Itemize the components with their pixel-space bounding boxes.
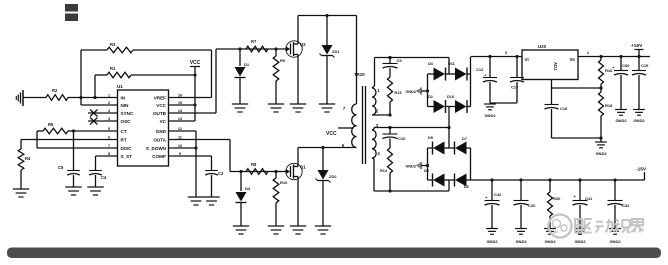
svg-text:R2: R2 [52,88,58,93]
capacitor C17 [510,57,524,104]
svg-text:OSC: OSC [121,119,132,124]
svg-text:D2: D2 [428,95,433,99]
wire pin1 rail to bridge [375,58,450,75]
svg-text:C19: C19 [641,63,649,68]
ground (below C3) [203,197,219,205]
svg-text:+15V: +15V [631,43,643,49]
svg-text:S_DOWN: S_DOWN [146,146,167,151]
svg-text:IN: IN [121,95,126,100]
svg-text:NIN: NIN [121,103,130,108]
svg-text:VC: VC [160,119,167,124]
ground GND2 (below R18) [595,138,607,156]
svg-text:GND2: GND2 [515,239,527,244]
op-amp U20 regulator [522,44,578,80]
svg-text:GND2: GND2 [544,239,556,244]
wire bridge left column [426,74,429,107]
svg-text:D10: D10 [447,95,454,99]
svg-text:C41: C41 [585,196,593,201]
svg-text:R13: R13 [395,91,402,95]
ground (below Q1 source) [290,226,306,234]
svg-text:GND2: GND2 [615,118,627,123]
wire bottom return line [374,189,449,192]
svg-text:Vo: Vo [569,57,575,62]
ground (below Q2 source) [290,104,306,112]
svg-text:C3: C3 [218,171,224,176]
wire bottom bridge left column [426,148,429,180]
capacitor C60 [612,57,630,110]
diode D6 [445,174,471,190]
wire RT pin6 [21,139,118,141]
transformer secondary winding upper [372,58,392,117]
svg-text:C12: C12 [476,67,484,72]
svg-text:15: 15 [178,101,182,105]
capacitor C4 [89,171,107,188]
svg-text:GND2: GND2 [405,165,416,169]
wire center tap line [374,126,451,129]
wire ADJ line [552,80,602,89]
svg-text:R1: R1 [110,66,116,71]
svg-text:R9: R9 [280,58,286,63]
svg-text:GND2: GND2 [633,118,645,123]
wire bridge right column [470,57,472,107]
svg-text:GND2: GND2 [484,113,496,118]
resistor R18 [599,88,614,140]
node GND2 (lower bridge left) [405,162,427,169]
transistor Q2 MOSFET [286,16,306,105]
wire pin5 line (Q1 drain to transformer pin5) [298,146,357,149]
svg-text:C4: C4 [101,175,107,180]
svg-text:C32: C32 [622,203,630,208]
header list marks [65,4,78,21]
capacitor C18 [545,88,569,138]
svg-text:D11: D11 [448,62,455,66]
svg-text:D1: D1 [244,62,250,67]
resistor R2 [46,88,68,100]
svg-text:VREF: VREF [154,95,166,100]
power VCC symbol (near U1) [190,60,201,121]
svg-text:GND2: GND2 [574,239,586,244]
ground (below ZD1) [319,104,335,112]
svg-text:GND: GND [156,129,167,134]
diode D2 [428,95,446,113]
ground GND2 (below C42) [486,229,498,245]
wire regulator bottom line [552,137,602,139]
wire OSC pin4 stub with X (no connect) [88,118,118,125]
capacitor C32 [608,180,631,228]
svg-text:1: 1 [108,94,110,98]
svg-text:R18: R18 [605,103,613,108]
wire negative output rail [471,172,645,182]
capacitor C19 [632,57,649,110]
svg-text:C42: C42 [494,192,502,197]
diode D4 (bridge) [424,169,445,187]
ground (chassis, left of R2) [16,90,46,106]
capacitor C5 [58,131,80,187]
power -15V terminal [636,167,647,173]
svg-text:C5: C5 [58,165,64,170]
svg-text:-15V: -15V [636,167,647,173]
ground GND2 (below C19) [633,110,645,124]
ground GND2 (below C20) [515,229,527,245]
svg-text:OUTB: OUTB [153,111,167,116]
power VCC tap (transformer primary center) [326,128,354,137]
wire bottom bridge row2 mid riser [448,180,450,191]
transformer core [363,86,366,164]
svg-text:Q2: Q2 [300,42,306,47]
ground GND2 (below C32) [609,229,621,245]
svg-text:C17: C17 [511,85,519,90]
capacitor C41 [573,180,594,228]
ground (below C4) [87,187,103,195]
svg-text:R3: R3 [110,42,116,47]
diode D10 [446,95,471,113]
svg-text:C9: C9 [397,58,403,63]
svg-text:13: 13 [178,117,182,121]
capacitor C10 and resistor R14 snubber [380,126,406,191]
svg-text:R7: R7 [251,39,257,44]
ground (below C5) [65,187,81,195]
wire cap bottoms join [490,102,517,104]
diode D4 [236,172,251,227]
wire S_ST pin8 [96,156,118,170]
capacitor C9 and resistor R13 snubber [383,56,403,115]
wire IN pin1 net [68,96,118,99]
svg-text:16: 16 [178,94,182,98]
wire NIN pin2 [81,104,118,106]
svg-text:C18: C18 [560,106,568,111]
wire VCC pin15 [169,103,197,106]
svg-text:VCC: VCC [156,103,166,108]
svg-text:ZD2: ZD2 [329,174,337,179]
resistor R9 [273,49,286,104]
svg-text:C10: C10 [398,136,406,141]
diode D1 [235,49,250,104]
op-amp U1 PWM controller [108,84,183,166]
ground GND2 (below C41) [574,229,586,245]
svg-text:D4: D4 [245,186,251,191]
transformer secondary winding lower [372,123,380,191]
diode D5 [428,136,445,155]
wire DISC pin7 [37,131,118,148]
footer divider bar [7,248,661,259]
wire OUTA pin11 to gate line [169,140,288,174]
svg-text:OUTA: OUTA [153,137,166,142]
ground (below D4) [233,226,249,234]
resistor R4 [18,140,31,190]
svg-text:2: 2 [108,101,110,105]
node GND2 (upper bridge left) [405,88,427,95]
ground (below R10) [268,226,284,234]
svg-text:GND2: GND2 [609,239,621,244]
power +15V terminal [631,43,644,57]
resistor R8 [246,162,268,174]
resistor R3 feedback loop [81,42,212,105]
wire bridge mid riser [448,107,450,128]
wire top rail (Q2 drain to transformer pin7) [298,14,357,17]
resistor R7 [246,39,268,52]
svg-text:R4: R4 [25,156,31,161]
wire SYNC pin3 stub with X (no connect) [88,110,118,117]
ground GND2 (below R20) [544,229,556,245]
svg-text:D3: D3 [428,62,433,66]
wire GND pin12 and S_DOWN pin10 to ground [169,131,198,197]
diode D3 [428,62,446,81]
ground GND2 (below C12 C17) [484,104,496,118]
svg-text:S_ST: S_ST [121,154,133,159]
svg-text:C60: C60 [622,63,630,68]
wire VREF pin16 [169,97,212,99]
diode D7 [445,137,471,155]
svg-text:R8: R8 [251,162,257,167]
wire COMP pin9 [169,156,212,170]
svg-text:COMP: COMP [152,154,166,159]
diode D11 [446,62,471,81]
transistor Q1 MOSFET [286,148,306,227]
svg-text:U20: U20 [538,44,547,49]
wire bottom bridge mid riser upper [448,128,450,149]
capacitor C12 [476,57,497,104]
resistor R20 [548,180,562,228]
svg-text:U1: U1 [117,84,123,89]
ground (below R4) [13,189,29,197]
svg-text:CT: CT [121,129,127,134]
svg-text:R20: R20 [553,196,561,201]
svg-text:D5: D5 [428,136,433,140]
ground (below D1) [232,104,248,112]
svg-text:TR20: TR20 [354,72,365,77]
wire VC pin13 [169,120,196,122]
ground GND2 (below C60) [615,110,627,124]
capacitor C42 [485,180,503,228]
zener ZD2 [316,148,338,227]
svg-text:RT: RT [121,137,127,142]
ground (below R9) [268,104,284,112]
transformer TR20 primary winding [342,16,365,149]
svg-text:VCC: VCC [190,60,201,66]
svg-text:R14: R14 [380,169,388,173]
resistor R5 [37,122,118,134]
svg-text:SYNC: SYNC [121,111,134,116]
svg-text:ADJ: ADJ [553,62,558,71]
svg-text:DISC: DISC [121,146,133,151]
svg-text:GND2: GND2 [405,90,416,94]
resistor R16 [599,57,614,90]
svg-text:GND2: GND2 [595,151,607,156]
zener ZD1 [320,16,341,105]
svg-text:D6: D6 [464,185,469,189]
resistor R1 loop [95,66,197,98]
ground (below ZD2) [315,226,331,234]
svg-text:Vi: Vi [525,57,529,62]
resistor R10 [273,172,288,227]
svg-text:C20: C20 [528,203,536,208]
watermark logo and text [549,215,644,238]
svg-text:Q1: Q1 [300,165,306,170]
svg-text:R5: R5 [48,122,54,127]
wire OUTB pin14 to gate line [169,47,290,113]
svg-text:ZD1: ZD1 [332,49,340,54]
capacitor C20 [514,180,537,228]
wire rectifier output rail [471,50,523,58]
svg-text:D7: D7 [462,137,467,141]
svg-text:GND2: GND2 [486,239,498,244]
ground (below pin12 wire) [188,197,204,205]
svg-text:VCC: VCC [326,131,337,137]
capacitor C3 [205,171,224,198]
wire regulator output rail [578,50,650,58]
wire bottom bridge right column [470,148,472,180]
svg-text:R10: R10 [280,180,288,185]
